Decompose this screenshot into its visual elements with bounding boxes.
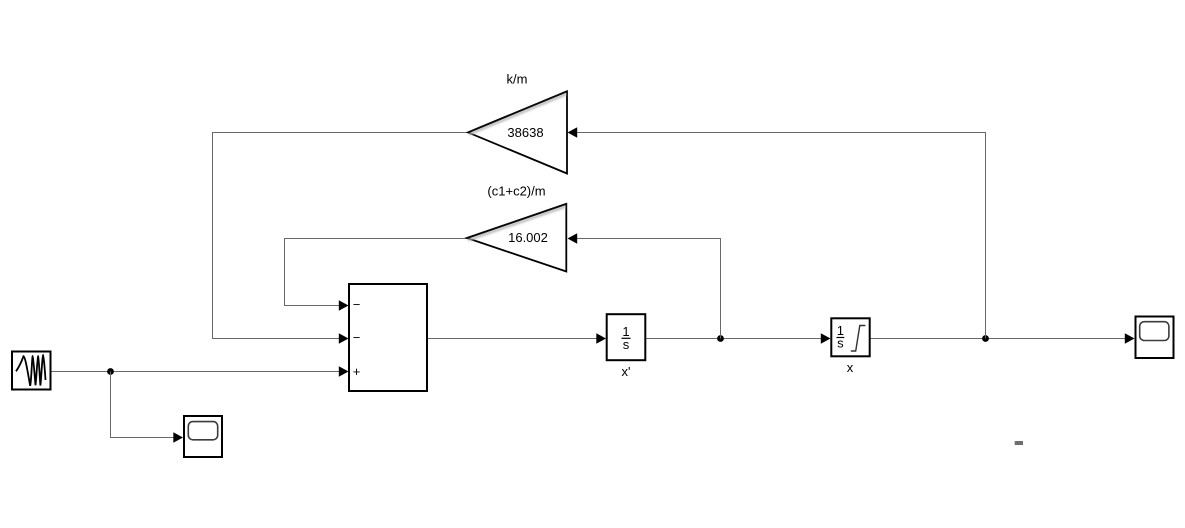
Scope1 block [184, 416, 222, 457]
arrowhead into sum input 1 [339, 300, 349, 310]
signal generator block [12, 352, 51, 390]
svg-text:16.002: 16.002 [508, 230, 548, 245]
small gray annotation mark [1015, 441, 1023, 445]
wire limited integrator output to Scope2 [871, 338, 1126, 340]
wire branch down to Scope1 [111, 372, 175, 438]
svg-text:+: + [353, 364, 361, 379]
wire damper gain output to sum first minus input [285, 239, 468, 306]
arrowhead into sum input 3 [339, 366, 349, 376]
wire integrator x' output to limited integrator x [646, 338, 822, 340]
Scope2 block [1136, 317, 1174, 359]
wire from signal generator to sum + input [52, 371, 340, 373]
svg-text:−: − [353, 330, 361, 345]
svg-text:k/m: k/m [507, 72, 528, 87]
Scope1 screen [188, 422, 217, 440]
node junction after integrator x' [717, 335, 724, 342]
wire spring gain output to sum second minus input [213, 133, 469, 339]
limited integrator x block [831, 318, 869, 356]
node junction after limited integrator [982, 335, 989, 342]
wire feedback from x node up to spring gain input [577, 133, 986, 339]
signal generator chirp waveform icon [16, 356, 46, 386]
arrowhead into Scope1 [173, 432, 183, 442]
arrowhead into spring gain k/m [568, 127, 578, 137]
svg-text:(c1+c2)/m: (c1+c2)/m [487, 184, 545, 199]
integrator x' fraction bar [622, 337, 631, 339]
arrowhead into Scope2 [1125, 333, 1135, 343]
node junction on source wire [107, 368, 114, 375]
sum block [349, 284, 427, 391]
saturation glyph [851, 326, 866, 352]
arrowhead into limited integrator x [821, 333, 831, 343]
svg-text:x': x' [622, 364, 631, 379]
arrowhead into damper gain (c1+c2)/m [568, 233, 578, 243]
wire sum output to integrator x' [428, 338, 597, 340]
wire feedback from x' node up to damper gain input [577, 239, 721, 339]
limited integrator fraction bar [837, 337, 845, 339]
arrowhead into sum input 2 [339, 333, 349, 343]
gain (c1+c2)/m triangle [467, 204, 566, 272]
gain k/m triangle [468, 91, 567, 173]
Scope2 screen [1140, 322, 1169, 341]
arrowhead into integrator x' [596, 333, 606, 343]
svg-text:s: s [837, 336, 844, 351]
svg-text:38638: 38638 [507, 125, 543, 140]
svg-text:−: − [353, 297, 361, 312]
integrator x' block [607, 314, 646, 360]
svg-text:x: x [847, 360, 854, 375]
svg-text:s: s [623, 337, 630, 352]
